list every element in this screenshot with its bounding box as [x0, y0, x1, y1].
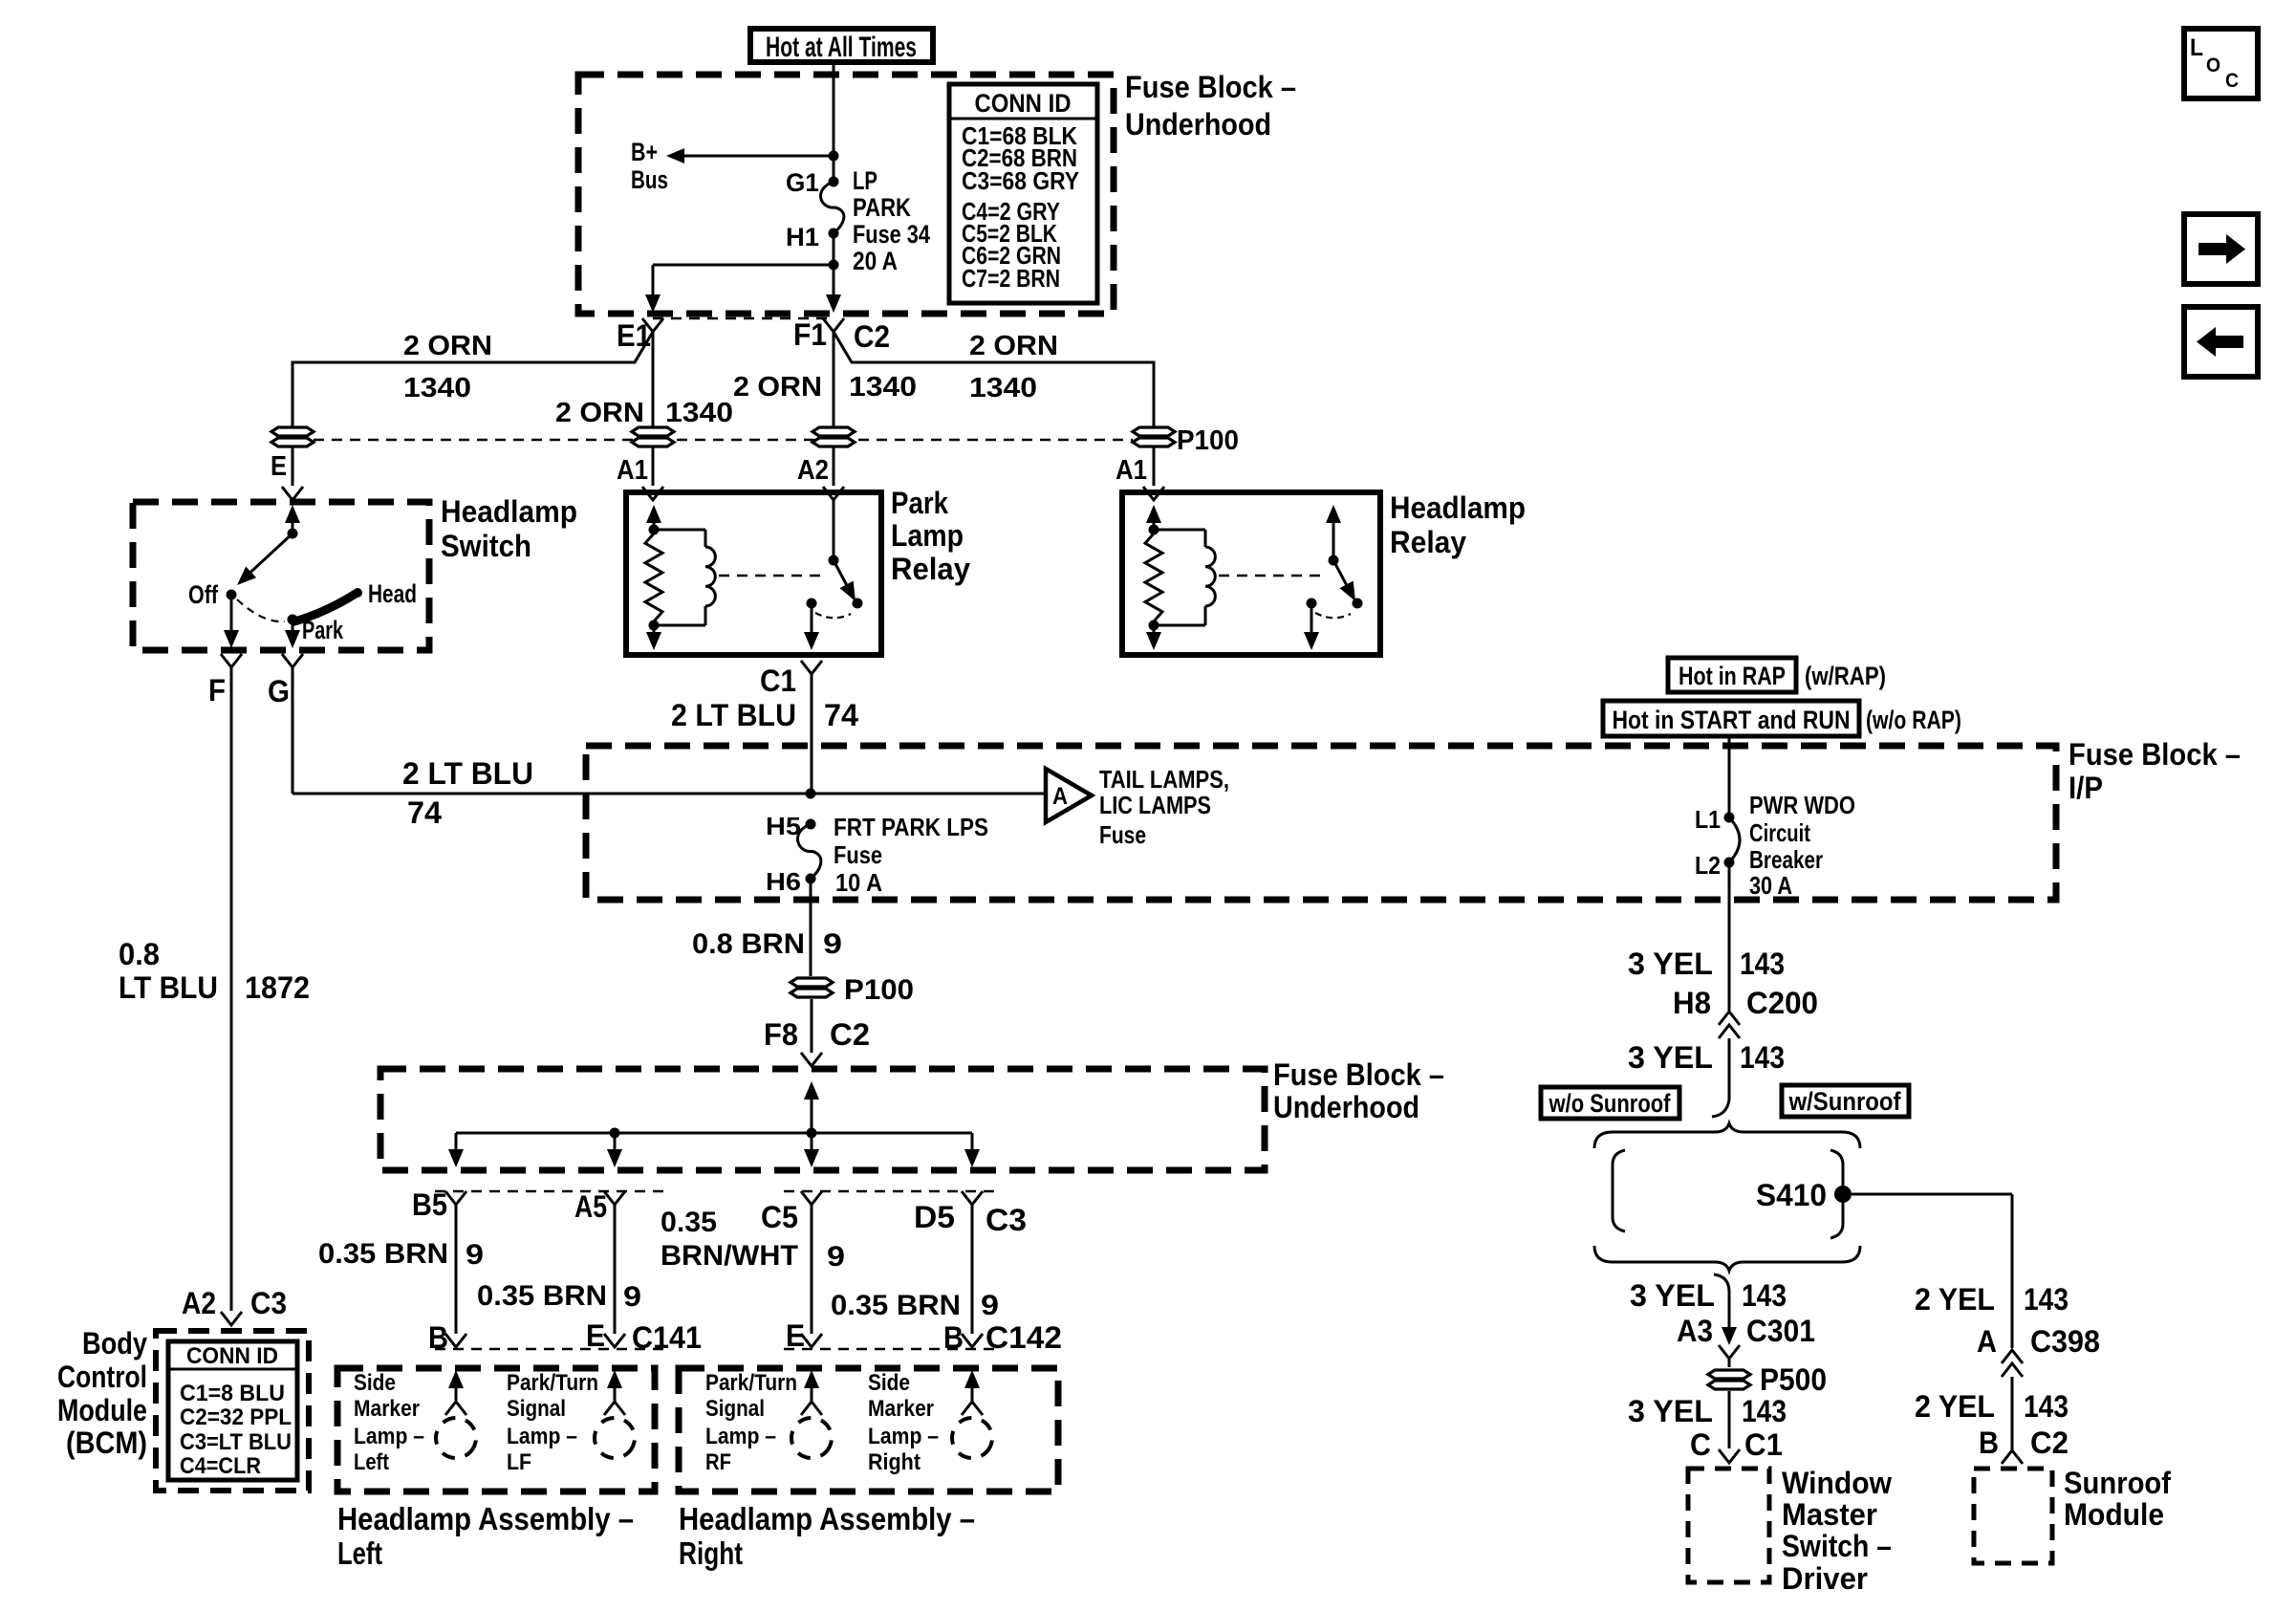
body control module dashed box: [156, 1331, 309, 1491]
wire: 2 ORN 1340 from E1 to headlamp switch: [292, 331, 653, 426]
terminal G1: [786, 168, 839, 197]
svg-text:D5: D5: [914, 1200, 955, 1234]
svg-text:Hot at All Times: Hot at All Times: [766, 32, 917, 63]
svg-text:FRT PARK LPS: FRT PARK LPS: [834, 813, 988, 841]
switch position Park: [288, 615, 344, 645]
wire resume hook: [1714, 1274, 1729, 1292]
previous page arrow icon: [2184, 307, 2258, 377]
terminal H5: [766, 812, 816, 840]
wire: 3 YEL 143 to window master switch: [1628, 1391, 1787, 1463]
svg-text:Park/Turn: Park/Turn: [507, 1370, 598, 1396]
park relay resistor: [645, 533, 662, 621]
svg-text:Signal: Signal: [507, 1396, 566, 1422]
label: Window Master Switch - Driver: [1782, 1466, 1892, 1596]
svg-text:F: F: [208, 673, 226, 708]
svg-text:Signal: Signal: [705, 1396, 765, 1422]
wire: RAP feed into I/P fuse block: [1728, 736, 1731, 817]
connector C3 dashed line: [435, 1190, 994, 1193]
svg-text:A: A: [1977, 1324, 1997, 1359]
svg-text:C1: C1: [760, 664, 796, 698]
wire: bus drop A5: [607, 1133, 622, 1167]
svg-text:C2=32 PPL: C2=32 PPL: [180, 1404, 292, 1430]
label box: Hot at All Times: [750, 29, 933, 63]
svg-text:143: 143: [1742, 1394, 1787, 1428]
svg-text:9: 9: [466, 1239, 484, 1271]
wire: 2 LT BLU 74 from switch G: [292, 667, 811, 830]
svg-text:Lamp –: Lamp –: [354, 1424, 424, 1449]
svg-text:0.35 BRN: 0.35 BRN: [318, 1238, 448, 1270]
park relay switch blade: [834, 560, 863, 609]
connector table CONN ID (BCM): [168, 1341, 297, 1480]
headlamp relay contact dashed arc: [1315, 613, 1351, 618]
label box: w/o Sunroof: [1541, 1087, 1679, 1119]
svg-text:0.35 BRN: 0.35 BRN: [477, 1280, 607, 1312]
lamp: park/turn RF: [705, 1370, 838, 1475]
label: Headlamp Switch: [441, 494, 577, 563]
svg-text:A1: A1: [617, 455, 648, 486]
inline connector at A1: [632, 427, 674, 446]
svg-text:C4=CLR: C4=CLR: [180, 1453, 261, 1479]
svg-text:Off: Off: [188, 580, 219, 609]
wire: 3 YEL 143 to C301: [1630, 1278, 1787, 1345]
label: Fuse Block - Underhood (lower): [1273, 1057, 1444, 1124]
alternates opening brace: [1594, 1123, 1860, 1148]
connector C398 double chevron: [2002, 1350, 2023, 1377]
wire: terminal A2 into park lamp relay: [797, 447, 844, 500]
headlamp switch dashed box: [133, 502, 429, 650]
svg-text:C3: C3: [250, 1286, 287, 1320]
LOC icon box: [2184, 29, 2258, 98]
svg-text:C141: C141: [632, 1320, 702, 1355]
svg-text:74: 74: [824, 698, 858, 732]
svg-text:LIC LAMPS: LIC LAMPS: [1099, 791, 1211, 819]
inline connector P500: [1708, 1359, 1827, 1397]
node: bus junction A5: [610, 1128, 620, 1139]
terminal B5: [412, 1187, 466, 1222]
svg-text:w/o Sunroof: w/o Sunroof: [1549, 1089, 1672, 1118]
svg-text:S410: S410: [1756, 1178, 1827, 1212]
wire: Off to terminal F: [208, 595, 242, 708]
label box: Hot in START and RUN: [1603, 701, 1961, 736]
svg-text:Relay: Relay: [891, 552, 970, 586]
svg-text:F1: F1: [793, 317, 827, 352]
w/o sunroof pass-through bracket: [1613, 1150, 1625, 1231]
wire: 3 YEL 143 to C200: [1628, 862, 1818, 1020]
svg-text:1340: 1340: [849, 372, 917, 403]
wire: 0.35 BRN 9 to LF park/turn: [477, 1205, 641, 1334]
terminal H6: [766, 867, 816, 896]
terminal A2/C3 at BCM: [182, 1286, 287, 1325]
svg-text:10 A: 10 A: [835, 868, 882, 897]
svg-text:L: L: [2190, 34, 2203, 61]
svg-text:Sunroof: Sunroof: [2064, 1466, 2171, 1500]
svg-text:2 ORN: 2 ORN: [555, 398, 644, 428]
svg-text:Underhood: Underhood: [1273, 1090, 1419, 1124]
svg-text:C398: C398: [2030, 1324, 2100, 1359]
inline connector P100 at headlamp relay: [1133, 425, 1239, 456]
label box: w/Sunroof: [1782, 1085, 1909, 1117]
svg-text:PARK: PARK: [853, 193, 911, 222]
connector C301 terminal A3: [1677, 1314, 1815, 1359]
label: Sunroof Module: [2064, 1466, 2171, 1532]
connector C142: [784, 1318, 1062, 1355]
park relay coil: [654, 530, 715, 625]
svg-text:2 LT BLU: 2 LT BLU: [671, 698, 796, 732]
svg-text:A2: A2: [182, 1286, 216, 1320]
svg-text:C1: C1: [1744, 1427, 1783, 1462]
wire: 0.35 BRN/WHT 9 to RF park/turn: [661, 1205, 845, 1334]
svg-text:C1=8 BLU: C1=8 BLU: [180, 1381, 285, 1406]
svg-text:A2: A2: [797, 455, 829, 486]
label: Fuse Block - Underhood (top): [1125, 70, 1296, 142]
fuse Fuse 34 LP PARK 20A element: [821, 166, 930, 275]
switch position Head thick arc: [294, 579, 417, 621]
terminal H1: [786, 223, 839, 251]
svg-text:Module: Module: [57, 1393, 147, 1427]
svg-text:B5: B5: [412, 1187, 447, 1222]
svg-text:Park/Turn: Park/Turn: [705, 1370, 797, 1396]
inline connector at A2: [812, 427, 855, 446]
dashed pass-through line P100: [314, 439, 1133, 442]
terminal C5: [761, 1191, 822, 1234]
svg-text:Marker: Marker: [354, 1396, 420, 1422]
svg-text:Fuse Block –: Fuse Block –: [2069, 737, 2241, 772]
switch wiper blade to Off: [237, 533, 292, 585]
svg-text:Control: Control: [57, 1360, 147, 1394]
svg-text:C3=LT BLU: C3=LT BLU: [180, 1429, 292, 1455]
wire: bus drop D5: [964, 1133, 980, 1167]
wire: Park to terminal G: [268, 620, 303, 708]
svg-text:C2: C2: [830, 1017, 870, 1052]
svg-text:G1: G1: [786, 168, 819, 197]
svg-text:H5: H5: [766, 812, 801, 840]
svg-text:C7=2 BRN: C7=2 BRN: [962, 264, 1060, 293]
svg-text:w/Sunroof: w/Sunroof: [1788, 1087, 1902, 1116]
wire: terminal A1 into park lamp relay: [617, 447, 663, 500]
fuse block - underhood (top) dashed box: [578, 75, 1114, 314]
svg-text:I/P: I/P: [2069, 771, 2103, 805]
alternates closing brace: [1594, 1246, 1860, 1271]
wire: terminal E into headlamp switch: [271, 447, 303, 500]
svg-text:Circuit: Circuit: [1749, 818, 1810, 847]
label: Headlamp Relay: [1390, 490, 1526, 559]
svg-text:30 A: 30 A: [1749, 871, 1792, 900]
svg-text:2 ORN: 2 ORN: [969, 331, 1058, 361]
svg-text:C3: C3: [986, 1203, 1027, 1237]
svg-text:B+: B+: [631, 138, 658, 166]
svg-text:C: C: [1690, 1427, 1711, 1462]
connector table CONN ID (underhood): [949, 84, 1097, 303]
wire: fuse output down to pins E1/F1: [645, 233, 841, 313]
headlamp relay output contact: [1304, 599, 1319, 651]
splice S410: [1756, 1178, 1852, 1212]
node: switch common: [288, 529, 298, 539]
svg-text:C301: C301: [1746, 1314, 1815, 1348]
label: Headlamp Assembly - Right: [679, 1501, 975, 1571]
svg-text:Left: Left: [354, 1449, 389, 1475]
svg-text:A5: A5: [574, 1189, 607, 1224]
svg-text:2 ORN: 2 ORN: [403, 331, 492, 361]
svg-text:G: G: [268, 674, 290, 708]
fuse block - underhood (lower) dashed box: [380, 1069, 1265, 1170]
svg-text:TAIL LAMPS,: TAIL LAMPS,: [1099, 765, 1229, 794]
svg-text:Left: Left: [337, 1535, 382, 1571]
svg-text:L1: L1: [1695, 805, 1721, 834]
svg-text:LF: LF: [507, 1449, 531, 1475]
svg-text:143: 143: [1740, 947, 1785, 981]
svg-text:Window: Window: [1782, 1466, 1892, 1500]
svg-text:(BCM): (BCM): [66, 1426, 147, 1460]
svg-text:Fuse Block –: Fuse Block –: [1125, 70, 1296, 104]
wire: battery feed from Hot at All Times: [833, 62, 835, 184]
distribution bus: [456, 1132, 972, 1135]
terminal D5: [914, 1191, 1027, 1237]
svg-text:9: 9: [623, 1281, 641, 1313]
lamp: side marker right: [868, 1370, 999, 1475]
svg-text:Head: Head: [368, 579, 417, 608]
wire: S410 to sunroof branch: [1852, 1194, 2012, 1348]
svg-text:LP: LP: [853, 166, 877, 195]
svg-text:1340: 1340: [403, 373, 471, 403]
wire: 3 YEL 143 below C200: [1628, 1038, 1785, 1117]
svg-text:(w/o RAP): (w/o RAP): [1866, 706, 1961, 734]
headlamp assembly left dashed box: [337, 1368, 655, 1491]
svg-text:0.8: 0.8: [119, 937, 160, 971]
park relay output contact: [804, 599, 819, 651]
svg-text:Relay: Relay: [1390, 525, 1466, 559]
svg-text:Lamp: Lamp: [891, 518, 964, 553]
svg-text:Bus: Bus: [631, 165, 668, 194]
svg-text:Fuse Block –: Fuse Block –: [1273, 1057, 1444, 1092]
terminal L2: [1695, 851, 1735, 880]
svg-text:B: B: [1979, 1426, 1999, 1460]
svg-text:Lamp –: Lamp –: [507, 1424, 577, 1449]
park relay coil feed: [646, 505, 661, 535]
svg-text:Hot in START and RUN: Hot in START and RUN: [1613, 706, 1851, 734]
svg-text:E: E: [271, 451, 287, 482]
headlamp relay coil: [1154, 530, 1215, 625]
svg-text:Lamp –: Lamp –: [868, 1424, 939, 1449]
svg-text:Headlamp Assembly –: Headlamp Assembly –: [337, 1501, 634, 1536]
svg-text:H8: H8: [1673, 986, 1711, 1020]
node: tail lamp junction: [806, 789, 816, 799]
svg-text:143: 143: [1740, 1040, 1785, 1075]
svg-text:Fuse: Fuse: [1099, 820, 1146, 849]
label: Fuse Block - I/P: [2069, 737, 2241, 805]
svg-text:L2: L2: [1695, 851, 1721, 880]
svg-text:20 A: 20 A: [853, 247, 898, 275]
label: Body Control Module (BCM): [57, 1326, 147, 1460]
svg-text:RF: RF: [705, 1449, 731, 1475]
wire: 0.8 LT BLU 1872 from switch F to BCM: [119, 667, 310, 1311]
wire: 2 ORN 1340 from F1 to headlamp relay: [834, 331, 1154, 426]
svg-text:2 LT BLU: 2 LT BLU: [402, 756, 533, 791]
park relay coil return: [646, 620, 661, 651]
svg-text:Marker: Marker: [868, 1396, 934, 1422]
connector C2 pins E1 and F1: [617, 317, 890, 354]
svg-text:Lamp –: Lamp –: [705, 1424, 776, 1449]
svg-text:A3: A3: [1677, 1314, 1713, 1348]
svg-text:C: C: [2225, 70, 2239, 92]
svg-text:1872: 1872: [245, 970, 310, 1005]
svg-text:9: 9: [823, 928, 842, 960]
wire: terminal A1 into headlamp relay: [1116, 447, 1164, 500]
svg-text:1340: 1340: [969, 373, 1037, 403]
node: B+ bus tap: [829, 151, 839, 162]
wire: 2 YEL 143 to C398: [1915, 1282, 2100, 1359]
headlamp relay switch blade: [1333, 560, 1363, 609]
svg-text:2 YEL: 2 YEL: [1915, 1282, 1995, 1317]
window master switch dashed box: [1688, 1469, 1769, 1582]
terminal A5: [574, 1189, 625, 1224]
svg-text:Headlamp: Headlamp: [441, 494, 577, 529]
svg-text:P100: P100: [844, 974, 914, 1006]
svg-text:Master: Master: [1782, 1497, 1877, 1532]
svg-text:Driver: Driver: [1782, 1561, 1868, 1596]
svg-text:Park: Park: [891, 486, 948, 520]
svg-text:PWR WDO: PWR WDO: [1749, 791, 1855, 819]
svg-text:3 YEL: 3 YEL: [1628, 1040, 1713, 1075]
park relay switch pivot: [829, 500, 839, 566]
svg-text:Hot in RAP: Hot in RAP: [1679, 662, 1786, 690]
svg-text:H6: H6: [766, 867, 801, 896]
headlamp assembly right dashed box: [679, 1368, 1058, 1491]
park relay actuation dashed link: [719, 575, 820, 577]
svg-text:CONN ID: CONN ID: [186, 1343, 278, 1369]
svg-text:Side: Side: [868, 1370, 910, 1396]
node: bus junction C5: [807, 1128, 817, 1139]
svg-text:C2: C2: [2030, 1426, 2069, 1460]
svg-text:3 YEL: 3 YEL: [1630, 1278, 1715, 1313]
svg-text:2 ORN: 2 ORN: [733, 372, 822, 403]
next page arrow icon: [2184, 214, 2258, 284]
svg-text:Module: Module: [2064, 1497, 2164, 1532]
svg-text:Headlamp: Headlamp: [1390, 490, 1526, 525]
svg-text:Body: Body: [82, 1326, 147, 1361]
svg-text:2 YEL: 2 YEL: [1915, 1389, 1995, 1424]
svg-text:C2: C2: [854, 319, 890, 354]
park relay contact dashed arc: [815, 613, 851, 618]
inline connector P100 at E wire: [271, 427, 314, 446]
wire: E1 down to A1 of park lamp relay: [555, 332, 733, 428]
headlamp relay actuation dashed link: [1219, 575, 1320, 577]
switch dashed travel arc: [237, 599, 285, 621]
svg-text:1340: 1340: [665, 398, 733, 428]
wire: 2 YEL 143 to sunroof module: [1915, 1377, 2069, 1464]
svg-text:Underhood: Underhood: [1125, 107, 1271, 142]
svg-text:9: 9: [981, 1290, 999, 1321]
wire: 0.35 BRN 9 to left side marker: [318, 1205, 484, 1334]
svg-text:B: B: [428, 1320, 448, 1355]
svg-text:143: 143: [2024, 1389, 2069, 1424]
terminal C1 below park lamp relay: [760, 661, 822, 698]
svg-text:E: E: [586, 1318, 605, 1353]
svg-text:74: 74: [407, 795, 442, 830]
svg-text:B: B: [943, 1320, 964, 1355]
svg-text:3 YEL: 3 YEL: [1628, 1394, 1713, 1428]
svg-text:Headlamp Assembly –: Headlamp Assembly –: [679, 1501, 975, 1536]
circuit breaker PWR WDO 30A: [1729, 791, 1855, 900]
svg-text:3 YEL: 3 YEL: [1628, 947, 1713, 981]
svg-text:CONN ID: CONN ID: [975, 89, 1072, 118]
wire: feed into distribution bus: [804, 1081, 819, 1133]
svg-text:143: 143: [2024, 1282, 2069, 1317]
svg-text:Side: Side: [354, 1370, 396, 1396]
node: fuse output junction: [829, 260, 839, 271]
connector C200 double chevron: [1719, 1012, 1740, 1038]
svg-text:(w/RAP): (w/RAP): [1805, 662, 1886, 690]
headlamp relay box: [1122, 492, 1380, 655]
svg-text:0.35 BRN: 0.35 BRN: [831, 1290, 961, 1321]
fuse block I/P dashed box: [586, 746, 2056, 900]
svg-text:143: 143: [1742, 1278, 1787, 1313]
wire: C1 down to tail lamp junction: [671, 674, 858, 794]
wire: feed to tail lamps fuse triangle: [811, 793, 1046, 795]
connector C141: [428, 1318, 702, 1355]
wire: B+ bus feed with arrow: [631, 138, 834, 194]
svg-text:C142: C142: [986, 1320, 1062, 1355]
svg-text:C200: C200: [1746, 986, 1818, 1020]
svg-text:Switch –: Switch –: [1782, 1529, 1892, 1563]
svg-text:A1: A1: [1116, 455, 1147, 486]
svg-text:BRN/WHT: BRN/WHT: [661, 1240, 798, 1272]
svg-text:A: A: [1052, 783, 1068, 810]
svg-text:Breaker: Breaker: [1749, 845, 1823, 874]
svg-text:Switch: Switch: [441, 529, 531, 563]
svg-text:9: 9: [827, 1241, 845, 1273]
switch position Off: [188, 580, 237, 609]
svg-text:C3=68 GRY: C3=68 GRY: [962, 166, 1079, 195]
svg-text:F8: F8: [764, 1017, 798, 1052]
wire: 0.35 BRN 9 to right side marker: [831, 1205, 999, 1334]
svg-text:P100: P100: [1177, 425, 1239, 456]
svg-text:H1: H1: [786, 223, 819, 251]
wire: 0.8 BRN 9 from FRT PARK LPS fuse: [692, 879, 842, 976]
svg-text:LT BLU: LT BLU: [119, 970, 218, 1005]
wire: bus drop C5: [804, 1133, 819, 1167]
terminal L1: [1695, 805, 1735, 834]
svg-text:O: O: [2206, 54, 2220, 76]
inline connector P100 lower: [791, 974, 914, 1006]
off-page triangle A: tail lamps: [1046, 765, 1229, 849]
wire: into F8 C2: [764, 999, 870, 1066]
svg-text:0.8 BRN: 0.8 BRN: [692, 928, 805, 960]
wire: bus drop B5: [448, 1133, 464, 1167]
svg-text:P500: P500: [1760, 1362, 1827, 1397]
svg-text:Fuse: Fuse: [834, 840, 882, 869]
label: Headlamp Assembly - Left: [337, 1501, 634, 1571]
sunroof module dashed box: [1974, 1469, 2052, 1563]
headlamp relay switch pivot: [1326, 505, 1341, 566]
switch common feed arrow: [285, 505, 300, 533]
splice S410 bracket: [1830, 1150, 1843, 1238]
svg-text:E: E: [786, 1318, 805, 1353]
fuse FRT PARK LPS 10A element: [798, 813, 988, 897]
label: Park Lamp Relay: [891, 486, 970, 586]
svg-text:C5: C5: [761, 1200, 798, 1234]
headlamp relay coil feed: [1146, 505, 1161, 535]
park lamp relay box: [626, 492, 881, 655]
svg-text:0.35: 0.35: [661, 1207, 717, 1238]
wire: F1 down to A2 of park lamp relay: [733, 332, 917, 426]
headlamp relay coil return: [1146, 620, 1161, 651]
svg-text:Right: Right: [868, 1449, 921, 1475]
svg-text:Right: Right: [679, 1535, 743, 1571]
svg-text:E1: E1: [617, 318, 651, 353]
lamp: side marker left: [354, 1370, 483, 1475]
lamp: park/turn LF: [507, 1370, 641, 1475]
headlamp relay resistor: [1145, 533, 1162, 621]
